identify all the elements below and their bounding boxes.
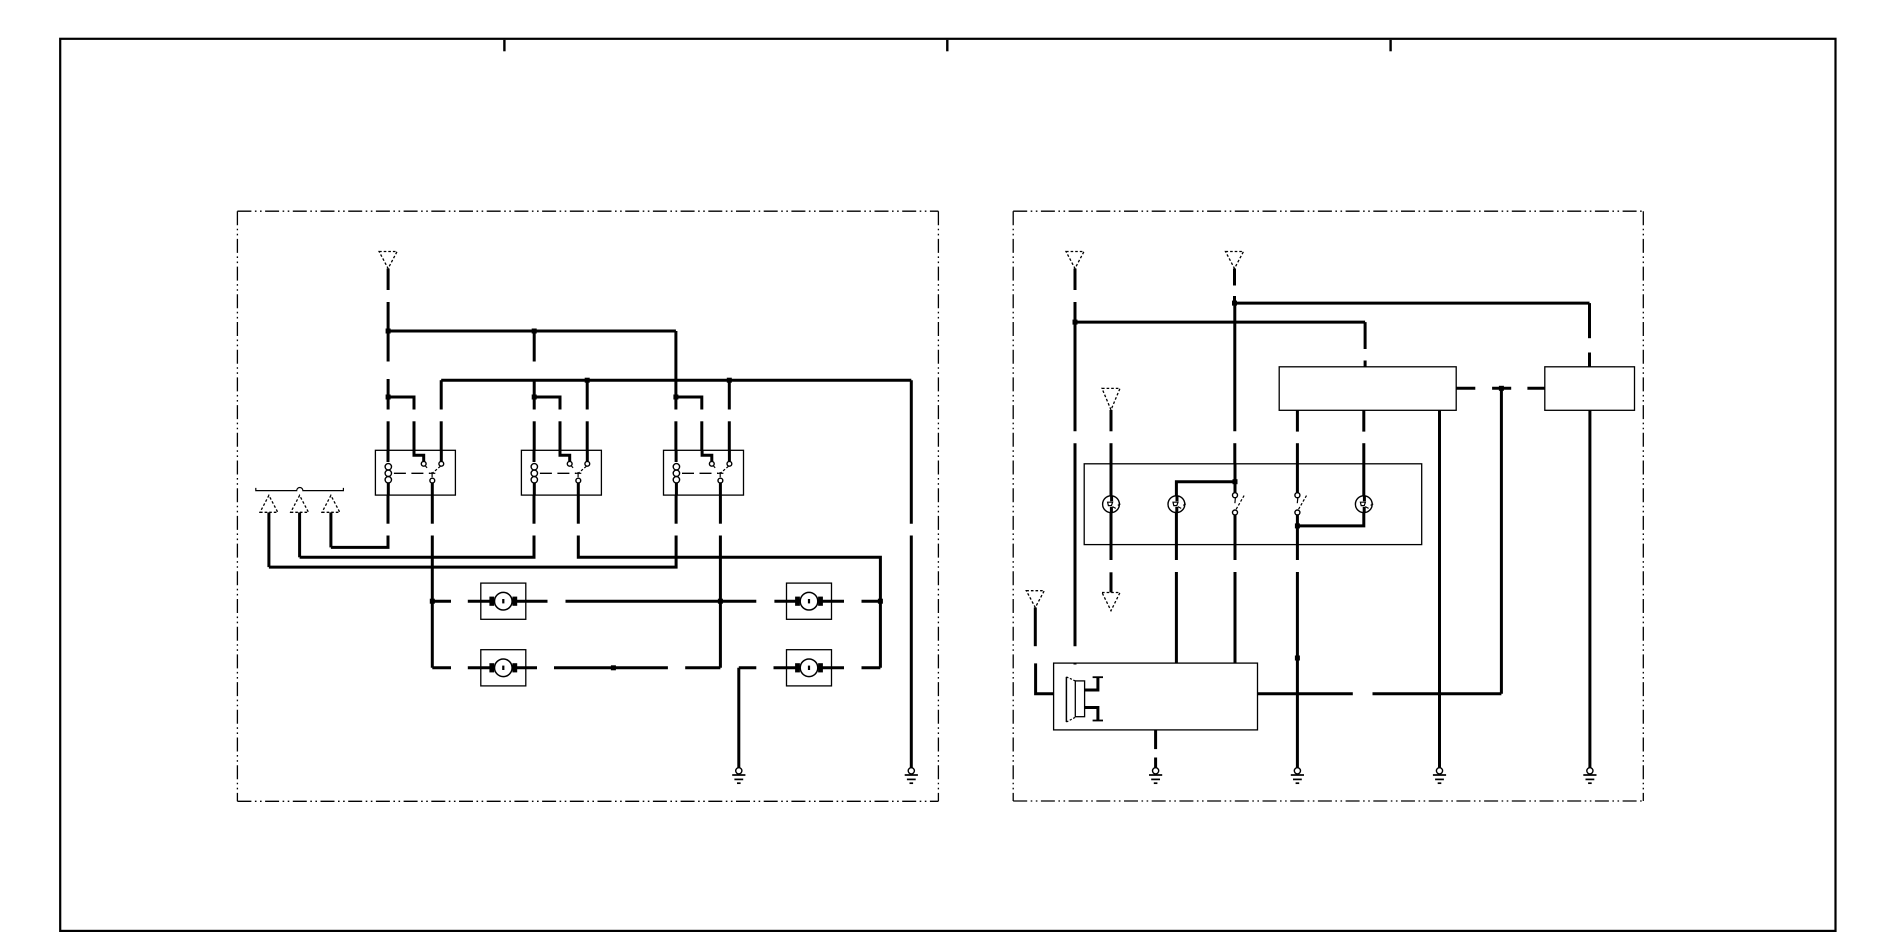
node: line2 junction to relay3 right pin xyxy=(727,378,732,383)
wire: horn unit bottom stub to ground G3 xyxy=(1154,730,1157,768)
node: right feed joins motor row1 xyxy=(878,599,883,604)
wire: relay2 common to right motors feed xyxy=(578,495,880,668)
relay K2 (window relay 2) xyxy=(521,450,601,495)
wire: motor row1 segment f xyxy=(822,600,844,603)
wire: L2 lead to horn unit xyxy=(1175,545,1178,664)
motor M1 (front left window motor) xyxy=(481,583,526,619)
wire: lamp L1 top lead xyxy=(1110,464,1113,496)
wire: relay1 coil pin stub xyxy=(387,397,390,450)
wire: drop from bus to relay3 area xyxy=(674,331,677,397)
ground G1 xyxy=(732,768,745,784)
wire: S2 lead to ground G4 xyxy=(1296,545,1299,768)
node: triangle C junction xyxy=(1232,301,1237,306)
motor M4 (rear right window motor) xyxy=(787,650,832,686)
wire: relay2 coil out to arrow T2 xyxy=(300,495,534,557)
wire: relay3 coil pin stub xyxy=(674,397,677,450)
combination meter box xyxy=(1084,464,1422,545)
wire: drop to relay2 right pin xyxy=(586,380,589,450)
wire: motor row2 segment e xyxy=(685,666,720,669)
node: relay3 common joins motor row1 xyxy=(718,599,723,604)
arrow terminator below lamp L1 xyxy=(1102,593,1120,611)
wire: U1 stub to lamp L3 xyxy=(1362,410,1365,464)
wire: line2 right corner down to ground xyxy=(910,380,913,768)
wire: motor row1 segment a xyxy=(432,600,451,603)
wire: horizontal bus line1 y=331 xyxy=(388,330,676,333)
wire: relay2 coil pin stub xyxy=(533,397,536,450)
node: dot on S2 ground lead xyxy=(1295,656,1300,661)
wire: drop to relay3 right pin xyxy=(728,380,731,450)
wire: switch S1 feed xyxy=(1234,464,1237,493)
wire: drop from bus to relay2 area xyxy=(533,331,536,397)
relay K1 (window relay 1) xyxy=(375,450,455,495)
lamp L2 xyxy=(1168,496,1186,513)
lamp L3 xyxy=(1355,496,1373,513)
page connector triangle A (power feed) xyxy=(379,252,397,269)
wire: drop into control unit top xyxy=(1364,322,1367,367)
wire: relay3 common down through row1 to row2 xyxy=(719,495,722,668)
wire: lamp L2 bottom lead xyxy=(1175,512,1178,544)
node: bus junction to relay 2 xyxy=(532,329,537,334)
wire: horn unit right output xyxy=(1258,692,1502,695)
wire: motor row2 segment b xyxy=(468,666,491,669)
horn speaker symbol xyxy=(1066,677,1103,722)
wire: relay3 branch hook to middle pin xyxy=(676,397,702,450)
ground G5 xyxy=(1433,768,1446,784)
wire: U1 stub to meter switch 2 xyxy=(1296,410,1299,464)
wire: lamp L3 top lead xyxy=(1362,464,1365,496)
lamp L1 xyxy=(1103,496,1121,513)
wire: drop from bus to relay1 area xyxy=(387,331,390,397)
wire: motor row2 segment f (right) xyxy=(739,666,757,669)
wire: L1 arrow stem xyxy=(1110,572,1113,592)
page connector triangle B (feed 1) xyxy=(1066,252,1084,269)
node: feed junction on bus line xyxy=(386,329,391,334)
wire: line2 left corner down to relay1 right pin xyxy=(440,380,443,450)
wire: lamp L2 top lead bend to switch1 xyxy=(1176,482,1235,496)
ground G6 xyxy=(1583,768,1596,784)
wire: horizontal bus line2 y=380 xyxy=(441,379,911,382)
wire: motor row1 segment c xyxy=(516,600,548,603)
wire: connector between U1 and U2 xyxy=(1456,387,1545,390)
wire: switch S2 feed xyxy=(1296,464,1299,493)
left dash-dot enclosure (power window system) xyxy=(237,211,938,801)
wire: U1 stub down to ground G5 xyxy=(1438,410,1441,767)
wire: motor row1 segment g xyxy=(862,600,881,603)
frame tick mark 2 xyxy=(946,40,948,51)
wire: relay1 common down to motor rows xyxy=(431,495,434,668)
wire: relay1 coil out to arrow T3 xyxy=(331,495,388,547)
switch S1 xyxy=(1233,493,1245,515)
node: line2 junction to relay2 right pin xyxy=(585,378,590,383)
wire: relay1 branch hook to middle pin xyxy=(388,397,414,450)
node: switch S2 / lamp L3 junction xyxy=(1295,523,1300,528)
wire: U2 stub down to ground G6 xyxy=(1588,410,1591,767)
harness arrow T2 (up) xyxy=(291,495,309,512)
page connector triangle E (horn feed) xyxy=(1026,591,1044,608)
node: relay3 coil/contact branch xyxy=(673,395,678,400)
wire: stem below triangle B xyxy=(1074,269,1077,323)
page connector triangle C (feed 2) xyxy=(1226,252,1244,269)
relay K3 (window relay 3) xyxy=(664,450,744,495)
wire: stem below triangle C xyxy=(1233,269,1236,304)
control unit box U1 xyxy=(1279,367,1456,411)
motor M3 (rear left window motor) xyxy=(481,650,526,686)
connector bracket over arrows xyxy=(256,488,344,491)
wire: motor row2 segment a xyxy=(432,666,451,669)
wire: motor row1 segment d xyxy=(566,600,757,603)
wire: motor row2 segment d xyxy=(554,666,668,669)
ground G3 xyxy=(1149,768,1162,784)
wire: triangle C drop to meter switch 1 xyxy=(1233,303,1236,464)
wire: horizontal line y=303 to relay box xyxy=(1235,302,1590,305)
wire: feed stem below triangle A xyxy=(387,269,390,332)
node: relay1 coil/contact branch xyxy=(386,395,391,400)
ground G2 xyxy=(905,768,918,784)
wire: motor row1 segment b xyxy=(468,600,491,603)
motor M2 (front right window motor) xyxy=(787,583,832,619)
wire: relay2 branch hook to middle pin xyxy=(534,397,560,450)
wire: horizontal line y=322 to control unit xyxy=(1075,321,1365,324)
wire: lamp L1 bottom lead xyxy=(1110,512,1113,544)
wire: motor row2 segment i xyxy=(862,666,881,669)
harness arrow T3 (up) xyxy=(322,495,340,512)
node: relay2 coil/contact branch xyxy=(532,395,537,400)
ground G4 xyxy=(1291,768,1304,784)
node: triangle B junction xyxy=(1073,320,1078,325)
wire: L1 stub below meter xyxy=(1110,545,1113,560)
page connector triangle D (illumination) xyxy=(1102,388,1120,410)
node: junction on U1-U2 link xyxy=(1499,386,1504,391)
wire: S1 lead to horn unit xyxy=(1234,545,1237,664)
wire: relay3 coil out to arrow T1 xyxy=(269,495,676,567)
node: relay1 common joins motor row1 xyxy=(430,599,435,604)
wire: stem below triangle D xyxy=(1110,410,1113,464)
wire: motor row2 segment g xyxy=(774,666,797,669)
wire: switch S1 out xyxy=(1234,515,1237,545)
wire: branch from S2 to lamp L3 xyxy=(1297,512,1363,526)
wire: drop into small relay box top xyxy=(1588,303,1591,367)
node: lamp L2 / switch1 junction xyxy=(1233,479,1238,484)
relay box U2 xyxy=(1545,367,1635,411)
wire: triangle E to horn unit left pin xyxy=(1035,608,1053,694)
wire: drop to ground G1 xyxy=(737,668,740,768)
frame tick mark 1 xyxy=(503,40,505,51)
wire: drop from U1-U2 link to horn wire xyxy=(1500,388,1503,694)
wire: motor row1 segment e xyxy=(774,600,796,603)
node: dot on motor row2 xyxy=(611,665,616,670)
wire: triangle B main drop to horn unit xyxy=(1074,322,1077,664)
horn unit box xyxy=(1054,663,1258,730)
switch S2 xyxy=(1295,493,1307,515)
frame tick mark 3 xyxy=(1389,40,1391,51)
right dash-dot enclosure (interior lights system) xyxy=(1013,211,1643,801)
wire: switch S2 out with branch xyxy=(1296,515,1299,545)
wire: motor row2 segment c xyxy=(516,666,537,669)
wire: motor row2 segment h xyxy=(822,666,844,669)
harness arrow T1 (up) xyxy=(260,495,278,512)
